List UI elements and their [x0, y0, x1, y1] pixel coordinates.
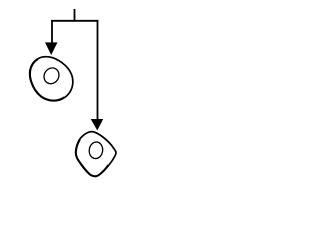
- node left outer thick arc (hand-drawn overlap): [30, 60, 63, 100]
- wire right vertical: [97, 20, 99, 121]
- node left inner ellipse: [41, 65, 62, 86]
- wire top stub: [74, 9, 76, 22]
- wire horizontal branch: [51, 20, 98, 22]
- node right inner ellipse: [88, 141, 103, 159]
- wire left vertical: [51, 20, 53, 44]
- node right outer thick arc (hand-drawn overlap): [76, 140, 108, 176]
- node left outer ellipse: [30, 57, 73, 101]
- arrowhead left: [45, 42, 58, 55]
- node right outer ellipse: [76, 132, 116, 177]
- arrowhead right: [91, 119, 104, 131]
